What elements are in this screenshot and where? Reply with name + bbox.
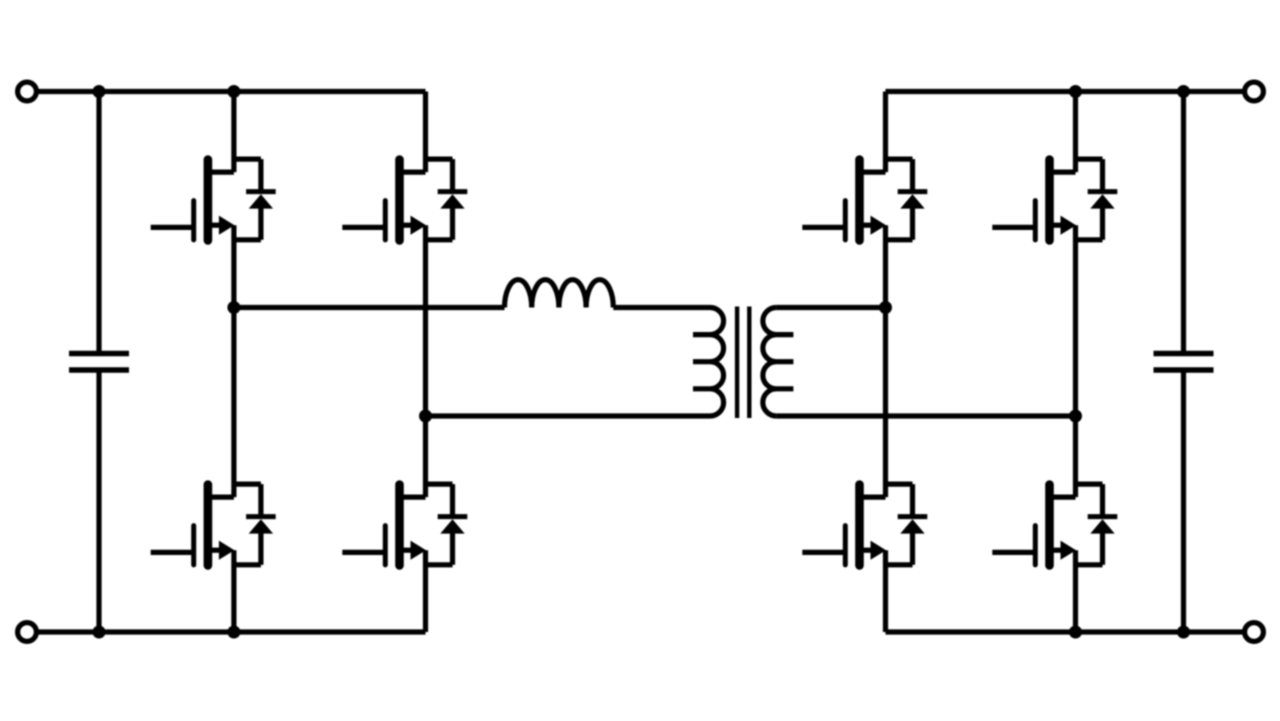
junction: node D phase right xyxy=(1069,410,1082,423)
junction: node A phase left xyxy=(227,301,240,314)
transistor Q1 xyxy=(151,159,276,240)
junction: node C phase right xyxy=(879,301,892,314)
junction: leg4 top rail xyxy=(1069,85,1082,98)
terminal: input negative xyxy=(18,623,37,642)
junction: Cin top rail xyxy=(93,85,106,98)
junction: leg4 bottom rail xyxy=(1069,626,1082,639)
wire: leg4 drain segment xyxy=(1073,92,1078,173)
capacitor Cin bottom lead xyxy=(96,370,101,632)
capacitor Cout top lead xyxy=(1181,92,1186,354)
capacitor Cout bottom lead xyxy=(1181,370,1186,632)
wire: leg1 bottom segment xyxy=(231,550,236,632)
terminal: input positive xyxy=(18,82,37,101)
wire: node A to inductor xyxy=(234,305,505,310)
wire: left bottom rail xyxy=(36,629,425,634)
wire: leg2 drain segment xyxy=(423,92,428,173)
transformer T1 secondary winding xyxy=(763,308,794,417)
junction: Cout bottom rail xyxy=(1177,626,1190,639)
terminal: output negative xyxy=(1245,623,1264,642)
transistor Q3 xyxy=(151,484,276,565)
capacitor Cin top lead xyxy=(96,92,101,354)
junction: Cout top rail xyxy=(1177,85,1190,98)
wire: leg4 middle segment xyxy=(1073,225,1078,497)
wire: right top rail xyxy=(886,89,1245,94)
wire: leg3 middle segment xyxy=(883,225,888,497)
transistor Q4 xyxy=(342,484,467,565)
wire: node B to transformer primary xyxy=(426,413,711,418)
wire: leg2 bottom segment xyxy=(423,550,428,632)
terminal: output positive xyxy=(1245,82,1264,101)
wire: leg3 drain segment xyxy=(883,92,888,173)
transistor Q8 xyxy=(992,484,1117,565)
transistor Q7 xyxy=(802,484,927,565)
wire: leg3 bottom segment xyxy=(883,550,888,632)
capacitor Cin plates xyxy=(69,354,129,371)
wire: leg2 middle segment xyxy=(423,225,428,497)
transistor Q5 xyxy=(802,159,927,240)
junction: Cin bottom rail xyxy=(93,626,106,639)
wire: leg4 bottom segment xyxy=(1073,550,1078,632)
junction: leg1 bottom rail xyxy=(227,626,240,639)
transformer T1 core xyxy=(737,307,749,419)
inductor L1 xyxy=(505,280,614,308)
wire: right bottom rail xyxy=(886,629,1245,634)
junction: leg1 top rail xyxy=(227,85,240,98)
junction: node B phase left xyxy=(419,410,432,423)
transformer T1 primary winding xyxy=(693,308,724,417)
wire: leg1 drain segment xyxy=(231,92,236,173)
wire: leg1 middle segment xyxy=(231,225,236,497)
transistor Q2 xyxy=(342,159,467,240)
wire: left top rail xyxy=(36,89,425,94)
capacitor Cout plates xyxy=(1154,354,1214,371)
wire: transformer secondary to leg3 node xyxy=(776,305,885,310)
wire: transformer secondary to leg4 node xyxy=(776,413,1075,418)
wire: inductor to transformer primary xyxy=(613,305,710,310)
transistor Q6 xyxy=(992,159,1117,240)
